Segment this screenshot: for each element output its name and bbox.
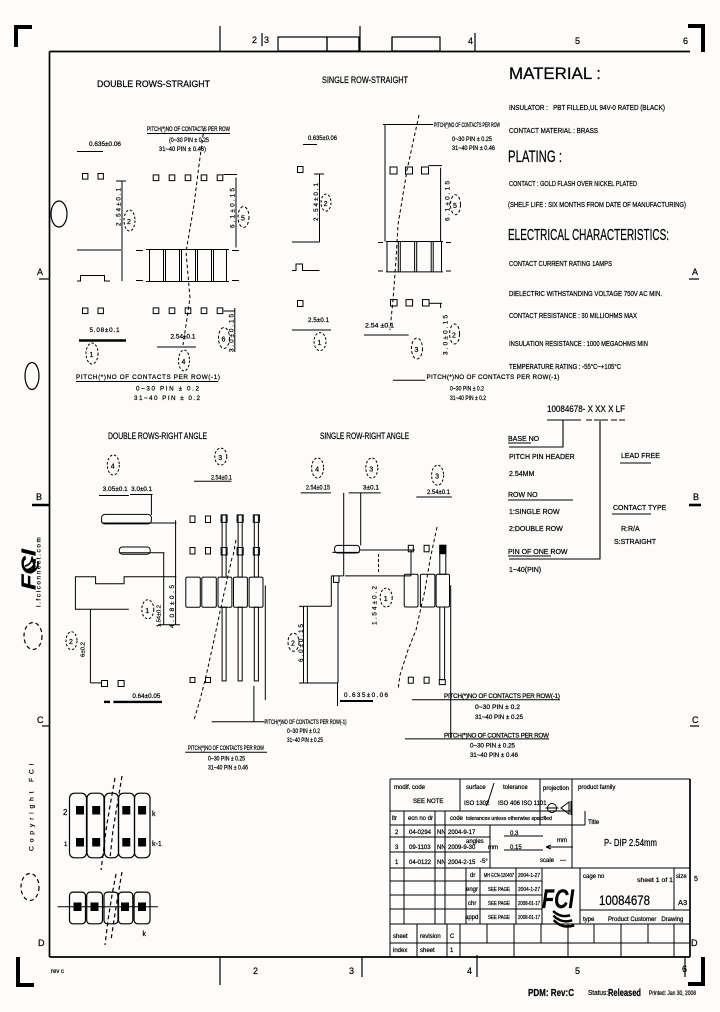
- balloon 6: [219, 328, 230, 349]
- svg-text:3.0±0.1: 3.0±0.1: [131, 486, 152, 493]
- front view body band: [136, 250, 239, 282]
- svg-text:31~40 PIN ± 0.46): 31~40 PIN ± 0.46): [159, 147, 206, 153]
- svg-text:CONTACT TYPE: CONTACT TYPE: [613, 505, 667, 512]
- svg-text:3: 3: [349, 966, 354, 976]
- single row pins: [74, 903, 147, 912]
- svg-text:2: 2: [63, 808, 68, 817]
- svg-text:6: 6: [682, 964, 687, 974]
- svg-text:1.54±0.2: 1.54±0.2: [372, 586, 379, 625]
- svg-text:5.08±0.1: 5.08±0.1: [90, 327, 120, 334]
- zone letter ticks right: [689, 279, 701, 726]
- leader lines: [344, 493, 361, 550]
- svg-text:SEE PAGE: SEE PAGE: [488, 887, 511, 893]
- svg-text:product family: product family: [578, 785, 615, 791]
- svg-text:2.5±0.1: 2.5±0.1: [308, 317, 329, 324]
- side view body profile: [307, 550, 411, 706]
- front view pin tip squares: [190, 678, 195, 683]
- svg-text:(SHELF LIFE : SIX MONTHS FROM: (SHELF LIFE : SIX MONTHS FROM DATE OF MA…: [508, 200, 686, 209]
- svg-text:3.05±0.1: 3.05±0.1: [103, 486, 129, 493]
- svg-text:0.64±0.05: 0.64±0.05: [132, 693, 160, 700]
- balloon 2: [321, 194, 331, 211]
- svg-text:PIN OF ONE ROW: PIN OF ONE ROW: [508, 549, 568, 556]
- svg-text:FCI: FCI: [542, 884, 574, 914]
- balloon 1: [380, 588, 392, 607]
- zone ticks top: [220, 26, 475, 52]
- svg-text:PLATING :: PLATING :: [508, 148, 562, 166]
- svg-text:6±0.2: 6±0.2: [81, 642, 87, 657]
- dim 6.0: [299, 606, 308, 683]
- svg-text:ISO 406 ISO 1101: ISO 406 ISO 1101: [498, 801, 547, 807]
- svg-text:3: 3: [264, 35, 269, 45]
- front view bottom pins: [391, 300, 430, 306]
- svg-text:5: 5: [241, 216, 245, 223]
- svg-text:2004-1-27: 2004-1-27: [518, 873, 540, 879]
- dim 3.0 bottom: [224, 308, 236, 352]
- break line dashed: [183, 128, 204, 345]
- svg-text:ROW NO: ROW NO: [508, 492, 538, 499]
- FCI logo title block: [542, 884, 576, 928]
- side view body profile: [75, 577, 176, 610]
- balloon 6: [450, 324, 460, 344]
- svg-text:C: C: [37, 715, 44, 725]
- svg-text:INSULATOR : PBT FILLED,UL 94: INSULATOR : PBT FILLED,UL 94V-0 RATED (B…: [509, 103, 665, 112]
- svg-text:ecn no dr: ecn no dr: [408, 816, 433, 822]
- svg-text:sheet 1 of 1: sheet 1 of 1: [637, 877, 673, 884]
- front view top squares: [408, 545, 413, 552]
- svg-text:2: 2: [395, 830, 399, 836]
- balloon 3: [366, 458, 378, 478]
- extension line: [384, 125, 386, 242]
- svg-text:1: 1: [395, 860, 399, 866]
- svg-text:2: 2: [252, 35, 257, 45]
- front view pin top: [440, 545, 446, 574]
- svg-text:tolerance: tolerance: [503, 785, 528, 791]
- svg-text:modif. code: modif. code: [394, 785, 426, 791]
- svg-text:C: C: [450, 934, 455, 940]
- svg-text:Title: Title: [588, 820, 600, 826]
- double row front view columns: [70, 793, 151, 858]
- FCI logo left margin (rotated): [19, 548, 41, 590]
- pn underlines: [547, 419, 625, 421]
- svg-text:0~30 PIN ± 0.2: 0~30 PIN ± 0.2: [287, 729, 321, 735]
- front view col squares row2: [190, 548, 195, 555]
- svg-text:k-1: k-1: [152, 841, 162, 848]
- balloon 2: [66, 632, 77, 650]
- corner mark top-right: [688, 26, 703, 52]
- svg-text:2: 2: [324, 201, 328, 208]
- svg-text:SEE NOTE: SEE NOTE: [413, 799, 443, 805]
- balloon 4: [107, 455, 119, 475]
- corner mark top-left: [16, 27, 32, 47]
- double row pins row2: [76, 838, 146, 847]
- svg-text:CONTACT RESISTANCE : 30 MILLIO: CONTACT RESISTANCE : 30 MILLIOHMS MAX: [509, 311, 637, 320]
- front view col squares row1: [190, 516, 195, 523]
- svg-text:2004-9-17: 2004-9-17: [448, 830, 476, 836]
- title block grid: [390, 779, 690, 957]
- svg-text:angles: angles: [466, 839, 484, 845]
- svg-text:1:SINGLE ROW: 1:SINGLE ROW: [509, 509, 560, 516]
- svg-text:revision: revision: [420, 934, 441, 940]
- zone letter ticks left: [32, 279, 49, 726]
- dim line 2.54: [314, 174, 324, 242]
- frame border: [50, 52, 691, 958]
- svg-text:MH ECN-120407: MH ECN-120407: [484, 873, 514, 879]
- svg-text:3±0.1: 3±0.1: [363, 485, 379, 492]
- svg-text:PITCH(*)NO OF CONTACTS PER ROW: PITCH(*)NO OF CONTACTS PER ROW(-1): [76, 374, 220, 381]
- svg-text:31~40 PIN ± 0.2: 31~40 PIN ± 0.2: [450, 395, 486, 402]
- svg-text:0~30 PIN ± 0.2: 0~30 PIN ± 0.2: [136, 386, 199, 393]
- svg-text:CONTACT CURRENT RATING 1AMPS: CONTACT CURRENT RATING 1AMPS: [509, 259, 612, 268]
- dim lines right: [158, 520, 180, 624]
- svg-text:chr: chr: [468, 901, 476, 907]
- svg-text:appd: appd: [465, 915, 478, 921]
- svg-text:2.54±0.1: 2.54±0.1: [313, 183, 320, 221]
- svg-text:DOUBLE ROWS-STRAIGHT: DOUBLE ROWS-STRAIGHT: [97, 79, 210, 89]
- dim 6.1: [429, 166, 443, 242]
- balloon 4: [312, 458, 324, 478]
- svg-text:A: A: [37, 267, 43, 277]
- front view bottom squares: [408, 677, 413, 683]
- svg-text:2.54MM: 2.54MM: [509, 471, 534, 478]
- svg-text:0~30 PIN ± 0.25: 0~30 PIN ± 0.25: [470, 743, 515, 750]
- svg-text:4.08±0.5: 4.08±0.5: [169, 585, 176, 628]
- single row front view columns: [70, 892, 151, 924]
- break lines double row: [101, 778, 115, 870]
- svg-text:R:R/A: R:R/A: [621, 526, 640, 533]
- svg-text:sheet: sheet: [420, 948, 435, 954]
- svg-text:A: A: [692, 267, 698, 277]
- pitch note A: [412, 699, 560, 701]
- svg-text:BASE NO: BASE NO: [508, 436, 540, 443]
- svg-text:0.635±0.06: 0.635±0.06: [89, 141, 121, 148]
- svg-text:-5°: -5°: [480, 859, 488, 865]
- svg-text:2: 2: [452, 333, 456, 340]
- svg-text:Copyright FCI: Copyright FCI: [29, 760, 36, 851]
- pitch note leader: [253, 686, 255, 722]
- svg-text:PITCH(*)NO OF CONTACTS PER ROW: PITCH(*)NO OF CONTACTS PER ROW(-1): [427, 374, 560, 381]
- svg-text:0~30 PIN ± 0.25: 0~30 PIN ± 0.25: [208, 757, 246, 763]
- svg-text:INSULATION RESISTANCE : 1000 M: INSULATION RESISTANCE : 1000 MEGAOHMS MI…: [509, 339, 648, 348]
- svg-text:S:STRAIGHT: S:STRAIGHT: [614, 539, 657, 546]
- svg-text:6.1±0.15: 6.1±0.15: [230, 188, 237, 228]
- svg-text:SINGLE ROW-STRAIGHT: SINGLE ROW-STRAIGHT: [322, 75, 408, 85]
- svg-text:mm: mm: [557, 838, 567, 844]
- extension line: [450, 585, 452, 738]
- svg-text:4: 4: [315, 467, 319, 474]
- margin oval 1: [51, 201, 67, 227]
- balloon 5: [238, 207, 249, 228]
- svg-text:0~30 PIN ± 0.2: 0~30 PIN ± 0.2: [450, 386, 484, 393]
- svg-text:04-0294: 04-0294: [409, 830, 432, 836]
- svg-text:cage no: cage no: [583, 874, 605, 880]
- zone ticks bottom: [220, 955, 685, 985]
- balloon 3b: [432, 465, 444, 485]
- break line dashed: [194, 558, 232, 720]
- svg-text:6: 6: [683, 36, 688, 46]
- balloon 3: [412, 338, 423, 359]
- svg-text:31~40 PIN ± 0.25: 31~40 PIN ± 0.25: [287, 738, 324, 744]
- front view top pins: [390, 167, 429, 174]
- svg-text:0.635±0.06: 0.635±0.06: [344, 692, 388, 699]
- svg-text:2: 2: [253, 966, 258, 976]
- projection symbol: [546, 801, 572, 815]
- pin below: [298, 301, 304, 307]
- front view body blocks: [404, 574, 449, 607]
- side view pin: [298, 167, 304, 173]
- svg-text:2008-01-17: 2008-01-17: [518, 901, 540, 907]
- tree line pin of one row: [509, 421, 600, 559]
- svg-text:2008-01-17: 2008-01-17: [518, 915, 540, 921]
- svg-text:scale: scale: [540, 858, 555, 864]
- svg-text:31~40 PIN ± 0.46: 31~40 PIN ± 0.46: [208, 766, 249, 772]
- svg-text:31~40 PIN ± 0.2: 31~40 PIN ± 0.2: [134, 395, 200, 402]
- svg-text:(0~30 PIN ± 0.25: (0~30 PIN ± 0.25: [169, 138, 210, 144]
- svg-text:D: D: [38, 938, 45, 948]
- svg-text:type: type: [583, 917, 595, 923]
- bottom profile: [292, 264, 320, 271]
- svg-text:k: k: [152, 811, 156, 818]
- svg-text:B: B: [36, 492, 42, 502]
- svg-text:PITCH(*)NO OF CONTACTS PER ROW: PITCH(*)NO OF CONTACTS PER ROW: [434, 123, 500, 129]
- side view pin tips: [102, 681, 108, 687]
- margin oval 3 dashed: [24, 623, 42, 650]
- surface check symbol: [486, 783, 494, 806]
- body top edge: [292, 241, 320, 243]
- svg-text:LEAD FREE: LEAD FREE: [621, 453, 660, 460]
- svg-text:31~40 PIN ± 0.25: 31~40 PIN ± 0.25: [475, 714, 523, 721]
- svg-text:4: 4: [182, 359, 186, 366]
- svg-text:3: 3: [395, 845, 399, 851]
- side view body top edge: [77, 249, 121, 251]
- svg-text:code: code: [450, 816, 464, 822]
- tree line base no: [509, 420, 563, 447]
- svg-text:D: D: [691, 938, 698, 948]
- svg-text:1: 1: [318, 340, 322, 347]
- svg-text:0.635±0.06: 0.635±0.06: [308, 135, 337, 142]
- svg-text:2.54±0.1: 2.54±0.1: [211, 475, 232, 482]
- svg-text:size: size: [676, 874, 687, 880]
- balloon 1: [86, 343, 98, 364]
- fold comb marks top: [278, 37, 440, 51]
- svg-text:tolerances unless otherwise sp: tolerances unless otherwise specified: [466, 816, 552, 822]
- svg-text:k: k: [143, 931, 147, 938]
- svg-text:5: 5: [453, 203, 457, 210]
- svg-text:2004-1-27: 2004-1-27: [518, 887, 540, 893]
- svg-text:PITCH(*)NO OF CONTACTS PER ROW: PITCH(*)NO OF CONTACTS PER ROW(-1): [444, 693, 560, 700]
- svg-text:0~30 PIN ± 0.2: 0~30 PIN ± 0.2: [475, 704, 521, 711]
- svg-text:31~40 PIN ± 0.46: 31~40 PIN ± 0.46: [452, 146, 496, 152]
- break line dashed: [398, 527, 437, 690]
- svg-text:3: 3: [369, 467, 373, 474]
- svg-text:3.0±0.15: 3.0±0.15: [443, 315, 450, 355]
- svg-text:4: 4: [111, 464, 115, 471]
- svg-text:A3: A3: [678, 898, 687, 907]
- svg-text:dr: dr: [470, 873, 475, 879]
- svg-text:DOUBLE ROWS-RIGHT ANGLE: DOUBLE ROWS-RIGHT ANGLE: [108, 431, 207, 441]
- svg-text:2.54±0.1: 2.54±0.1: [116, 188, 123, 226]
- dim 3.0: [430, 303, 442, 308]
- svg-text:PITCH(*)NO OF CONTACTS PER ROW: PITCH(*)NO OF CONTACTS PER ROW: [188, 746, 264, 752]
- side view bottom profile: [77, 276, 110, 282]
- break line dashed: [390, 115, 419, 330]
- balloon 5: [451, 195, 461, 215]
- svg-text:PITCH(*)NO OF CONTACTS PER ROW: PITCH(*)NO OF CONTACTS PER ROW(-1): [265, 720, 347, 726]
- side view pin: [335, 545, 360, 553]
- svg-text:CONTACT : GOLD FLASH OVER NICK: CONTACT : GOLD FLASH OVER NICKEL PLATED: [509, 179, 637, 188]
- svg-text:engr: engr: [466, 887, 478, 893]
- svg-text:1: 1: [90, 352, 94, 359]
- side view pin 2: [119, 547, 150, 554]
- svg-text:4: 4: [467, 966, 472, 976]
- svg-text:ELECTRICAL CHARACTERISTICS:: ELECTRICAL CHARACTERISTICS:: [508, 227, 669, 244]
- svg-text:2004-2-15: 2004-2-15: [448, 860, 476, 866]
- front view body blocks: [186, 577, 263, 607]
- dim line 2.54 side: [116, 181, 126, 281]
- svg-text:TEMPERATURE RATING : -55°C~+10: TEMPERATURE RATING : -55°C~+105°C: [509, 362, 622, 371]
- svg-text:Released: Released: [608, 987, 641, 999]
- single row centerline: [58, 906, 158, 908]
- svg-text:SEE PAGE: SEE PAGE: [488, 901, 511, 907]
- dim 6 drop line: [90, 609, 101, 683]
- svg-text:2.54±0.15: 2.54±0.15: [306, 485, 330, 492]
- svg-text:ltr: ltr: [392, 816, 397, 822]
- svg-text:SEE PAGE: SEE PAGE: [488, 915, 511, 921]
- dim 6.1: [224, 175, 238, 248]
- pitch note bottom: [393, 379, 425, 381]
- svg-text:mm: mm: [488, 845, 498, 851]
- balloon 3: [215, 448, 227, 465]
- front view bottom pins: [153, 308, 223, 314]
- svg-text:NN: NN: [437, 860, 446, 866]
- svg-text:SINGLE ROW-RIGHT ANGLE: SINGLE ROW-RIGHT ANGLE: [320, 431, 409, 441]
- side view lower pins: [83, 308, 88, 314]
- svg-text:Status:: Status:: [588, 988, 608, 997]
- svg-text:0~30 PIN ± 0.25: 0~30 PIN ± 0.25: [452, 137, 493, 143]
- double row pins row1: [76, 806, 146, 815]
- svg-text:4: 4: [468, 36, 473, 46]
- svg-text:P- DIP 2.54mm: P- DIP 2.54mm: [604, 838, 657, 849]
- svg-text:—: —: [560, 858, 566, 864]
- svg-text:Product Customer Drawing: Product Customer Drawing: [608, 917, 683, 923]
- svg-text:5: 5: [575, 36, 580, 46]
- svg-text:2:DOUBLE ROW: 2:DOUBLE ROW: [509, 526, 563, 533]
- front view top pins: [153, 175, 223, 181]
- balloon 4: [179, 350, 190, 371]
- side view upper pins: [83, 174, 88, 180]
- svg-text:1~40(PIN): 1~40(PIN): [509, 567, 541, 574]
- svg-text:Printed: Jan 30, 2008: Printed: Jan 30, 2008: [649, 990, 696, 997]
- pitch note top: [383, 124, 433, 126]
- svg-text:5: 5: [575, 966, 580, 976]
- svg-text:DIELECTRIC WITHSTANDING VOLTAG: DIELECTRIC WITHSTANDING VOLTAGE 750V AC …: [509, 289, 662, 298]
- svg-text:3: 3: [218, 455, 222, 462]
- side view pin 1: [102, 514, 152, 524]
- svg-text:10084678: 10084678: [599, 893, 650, 908]
- svg-text:MATERIAL :: MATERIAL :: [509, 65, 601, 83]
- balloon 1: [142, 600, 154, 619]
- front view pins lower: [222, 607, 258, 681]
- svg-text:C: C: [692, 715, 699, 725]
- front view pins upper: [221, 515, 259, 577]
- svg-text:2.54±0.1: 2.54±0.1: [171, 334, 197, 341]
- svg-text:1: 1: [145, 608, 149, 615]
- svg-text:2: 2: [291, 641, 295, 648]
- svg-text:1.54±0.2: 1.54±0.2: [157, 605, 163, 627]
- svg-text:B: B: [693, 492, 699, 502]
- svg-text:1: 1: [64, 842, 68, 848]
- balloon 2: [288, 633, 299, 651]
- corner mark bottom-right: [688, 957, 703, 984]
- svg-text:04-0122: 04-0122: [409, 860, 432, 866]
- svg-text:NN: NN: [437, 845, 446, 851]
- margin oval 4 dashed: [21, 874, 39, 901]
- break lines single row: [105, 874, 116, 945]
- svg-text:09-1103: 09-1103: [409, 845, 431, 851]
- svg-text:sheet: sheet: [393, 934, 408, 940]
- corner mark bottom-left: [18, 957, 34, 985]
- svg-text:3: 3: [415, 347, 419, 354]
- svg-text:1: 1: [384, 596, 388, 603]
- svg-text:ISO 1302: ISO 1302: [464, 801, 490, 807]
- svg-text:2.54±0.1: 2.54±0.1: [427, 489, 450, 496]
- svg-text:5: 5: [694, 876, 698, 883]
- svg-text:6: 6: [222, 337, 226, 344]
- svg-text:10084678- X XX X LF: 10084678- X XX X LF: [547, 404, 625, 415]
- svg-text:2: 2: [69, 639, 73, 646]
- balloon 1: [314, 333, 326, 351]
- svg-text:2: 2: [127, 219, 131, 226]
- svg-text:2009-9-30: 2009-9-30: [448, 845, 476, 851]
- svg-text:surface: surface: [466, 785, 486, 791]
- svg-text:1: 1: [450, 948, 454, 954]
- svg-text:PITCH PIN HEADER: PITCH PIN HEADER: [509, 454, 575, 461]
- extension line right: [264, 585, 266, 700]
- svg-text:i.fciconnect.com: i.fciconnect.com: [36, 536, 43, 607]
- front view pin lower: [440, 607, 445, 680]
- svg-text:3: 3: [435, 474, 439, 481]
- dim 1.54: [410, 550, 412, 576]
- svg-text:PDM: Rev:C: PDM: Rev:C: [528, 987, 574, 999]
- balloon 2: [124, 210, 135, 231]
- svg-text:31~40 PIN ± 0.46: 31~40 PIN ± 0.46: [470, 752, 518, 759]
- svg-text:CONTACT MATERIAL : BRASS: CONTACT MATERIAL : BRASS: [509, 126, 598, 135]
- svg-text:NN: NN: [437, 830, 446, 836]
- dashed extension: [378, 554, 380, 573]
- front view body band: [378, 242, 451, 272]
- margin oval 2: [25, 363, 39, 390]
- svg-text:projection: projection: [543, 786, 569, 792]
- svg-text:PITCH(*)NO OF CONTACTS PER ROW: PITCH(*)NO OF CONTACTS PER ROW: [147, 127, 230, 133]
- svg-text:index: index: [393, 948, 407, 954]
- svg-text:rev c: rev c: [51, 969, 64, 975]
